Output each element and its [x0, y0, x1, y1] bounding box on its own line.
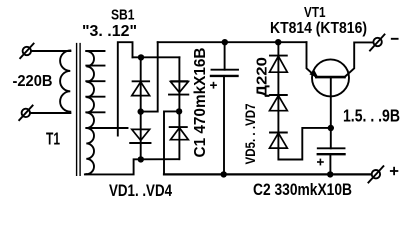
node dot (base node)	[328, 125, 334, 131]
diode VD4	[170, 127, 189, 140]
wire (mid-left to minus riser)	[141, 42, 158, 111]
svg-text:VD5. . .VD7: VD5. . .VD7	[243, 104, 258, 165]
terminal X1 (AC input top)	[20, 44, 33, 59]
transformer T1 secondary winding	[86, 51, 94, 174]
svg-text:C1 470mkX16B: C1 470mkX16B	[192, 48, 209, 158]
terminal X2 (AC input bottom)	[19, 106, 32, 121]
output minus sign	[392, 38, 398, 40]
node dot (C1 top)	[222, 39, 228, 45]
wire (bottom rail, plus)	[164, 173, 371, 175]
secondary tap lead 1 (top)	[86, 50, 104, 52]
diode VD1	[132, 81, 150, 95]
node dot (bridge mid-right, DC plus)	[176, 108, 182, 114]
transformer T1 core	[77, 44, 81, 176]
secondary tap lead 4	[86, 96, 104, 98]
transistor VT1 emitter arrow (pnp)	[309, 69, 318, 78]
output plus sign	[391, 168, 398, 175]
wire (top input to primary)	[31, 50, 70, 52]
node dot (bridge AC-top / left column)	[138, 54, 144, 60]
wire (reference diode chain)	[278, 42, 330, 159]
node dot (C2 bottom)	[327, 171, 333, 177]
diode VD7	[270, 133, 288, 149]
capacitor C1 bottom lead	[223, 76, 225, 174]
capacitor C2 plus sign	[318, 159, 323, 164]
svg-text:T1: T1	[46, 128, 60, 148]
secondary tap lead 6 (long, to switch)	[86, 127, 127, 129]
node dot (bridge bottom / trafo return)	[138, 156, 144, 162]
terminal X3 (output minus)	[370, 35, 385, 51]
transformer T1 primary winding	[60, 51, 70, 114]
capacitor C1 plates	[211, 70, 238, 76]
secondary tap lead 2	[86, 65, 104, 67]
transistor VT1 emitter lead	[307, 42, 317, 77]
secondary tap lead 3	[86, 80, 104, 82]
transistor VT1 body	[312, 59, 349, 96]
transistor VT1 base bar	[316, 76, 344, 79]
diode VD6	[270, 95, 288, 111]
diode VD5	[270, 56, 288, 73]
capacitor C2 bottom lead	[329, 154, 331, 174]
wire (secondary bottom lead to bridge)	[84, 159, 141, 174]
svg-text:KT814 (KT816): KT814 (KT816)	[270, 20, 367, 37]
transistor VT1 base lead	[330, 77, 332, 148]
wire (bridge left column)	[140, 57, 142, 159]
wire (bridge AC-bottom node)	[141, 158, 179, 160]
terminal X4 (output plus)	[368, 166, 383, 182]
switch SB1 wire	[118, 42, 133, 135]
wire (top rail, minus)	[158, 41, 307, 43]
diode VD3	[169, 81, 188, 94]
svg-text:1.5. . .9B: 1.5. . .9B	[343, 106, 400, 126]
node dot (chain top)	[275, 39, 281, 45]
svg-text:C2 330mkX10B: C2 330mkX10B	[253, 181, 352, 199]
node dot (C1 bottom)	[221, 171, 227, 177]
svg-text:VT1: VT1	[304, 5, 326, 21]
wire (mid-right to plus rail)	[164, 111, 179, 174]
wire (bridge right column)	[178, 57, 180, 159]
capacitor C1 plus sign	[211, 83, 216, 88]
secondary tap lead 5	[86, 111, 104, 113]
wire (bottom input to primary)	[30, 112, 70, 114]
svg-text:-220B: -220B	[13, 73, 53, 90]
capacitor C1 top lead	[224, 42, 226, 69]
capacitor C2 plates	[318, 148, 345, 154]
node dot (bridge mid-left, DC minus)	[138, 108, 144, 114]
wire (bridge AC-top node)	[133, 56, 180, 58]
diode VD2	[130, 129, 150, 143]
svg-text:VD1. .VD4: VD1. .VD4	[109, 182, 173, 200]
svg-text:Д220: Д220	[255, 57, 271, 97]
svg-text:"3. .12": "3. .12"	[82, 23, 137, 40]
svg-text:SB1: SB1	[111, 6, 135, 23]
transistor VT1 collector lead	[345, 42, 374, 77]
